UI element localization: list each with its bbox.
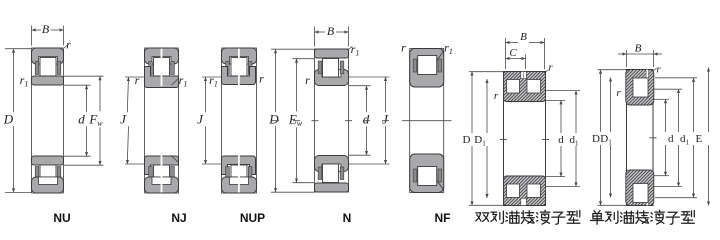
svg-text:d: d — [363, 111, 370, 126]
dimension D line (FC2) — [471, 72, 473, 134]
bearing NU cage (bottom) — [35, 167, 61, 180]
bearing FC1 rib slit (bottom) — [646, 197, 648, 206]
bearing N roller (top) — [323, 59, 339, 78]
bearing NUP center split line (bottom) — [238, 155, 240, 193]
label r1 (N top right) — [349, 46, 352, 49]
svg-text:d: d — [668, 133, 674, 145]
bearing NUP outer ring (bottom, two flanges) — [222, 177, 257, 193]
bearing N outer ring (top, plain) — [315, 49, 349, 58]
svg-text:NF: NF — [435, 211, 451, 225]
label r (FC1 top right) — [654, 68, 657, 70]
bearing NUP inner ring (top, flange + loose rib) — [222, 67, 256, 85]
caption: double-row full complement roller type (Chinese) — [476, 210, 580, 224]
bearing N body outline — [315, 49, 349, 192]
bearing NU cage (top) — [35, 62, 61, 75]
dimension B line (FC1, outside arrows) — [618, 53, 627, 55]
bearing FC2 roller row 2 (top) — [527, 80, 541, 94]
bearing NJ inner ring (bottom, one flange left) — [145, 156, 179, 175]
dimension E extension lines (FC1) — [655, 77, 697, 79]
bearing FC2 rib notch (bottom) — [521, 198, 527, 205]
dimension Ew extension lines (N) — [293, 58, 315, 60]
bearing NU outer ring (bottom, two flanges) — [32, 177, 64, 193]
bearing NU body outline — [32, 48, 64, 193]
bearing NUP roller (bottom) — [231, 165, 247, 184]
svg-text:r: r — [401, 41, 406, 55]
dimension Ew line (N) — [296, 59, 298, 112]
bearing NJ roller (bottom) — [154, 165, 170, 184]
bearing NF cage (top) — [413, 59, 441, 72]
bearing NJ center split line (top) — [161, 49, 163, 87]
bearing FC2 roller row 1 (bottom) — [507, 184, 520, 198]
dimension E line (FC1) — [693, 78, 695, 132]
bearing NJ body outline — [145, 48, 179, 193]
bearing FC2 cross-section (bottom, hatched) — [504, 176, 546, 206]
dimension B extension lines (NU) — [31, 26, 33, 46]
bearing NUP cage (bottom) — [226, 167, 252, 180]
svg-text:NUP: NUP — [240, 211, 265, 225]
bearing FC2 rib notch (top) — [521, 72, 527, 79]
dimension B line (NU) — [32, 29, 42, 31]
bearing NF body outline — [410, 49, 444, 193]
label r (NU, outer ring chamfer) — [64, 45, 67, 48]
svg-text:B: B — [42, 22, 50, 36]
dimension B line (N) — [315, 31, 326, 33]
bearing NJ cage (top) — [149, 62, 175, 75]
bearing NUP cage (top) — [226, 62, 252, 75]
bearing NUP roller (top) — [231, 58, 247, 77]
dimension D line (NU) — [13, 49, 15, 113]
bearing FC1 cylinder body — [627, 70, 654, 206]
dimension D extension lines (N) — [271, 48, 315, 50]
bearing NF roller (bottom) — [418, 167, 437, 186]
svg-text:N: N — [343, 211, 352, 225]
bearing NUP inner ring (bottom, flange + loose rib) — [222, 156, 256, 175]
bearing NJ outer ring (top, two flanges) — [145, 48, 179, 64]
dimension d1 line (FC2) — [575, 91, 577, 134]
bearing FC1 roller (bottom) — [633, 184, 648, 203]
svg-text:E: E — [696, 133, 703, 145]
bearing NU inner ring (top, plain) — [32, 76, 64, 85]
bearing NJ flange separation (bottom right) — [172, 156, 179, 163]
svg-text:B: B — [635, 43, 642, 55]
dimension d line (FC2) — [560, 100, 562, 133]
svg-text:r: r — [656, 64, 661, 76]
svg-text:B: B — [520, 31, 527, 43]
dimension J line (NUP) — [205, 77, 207, 112]
svg-text:d: d — [78, 111, 85, 126]
dimension D line (N) — [275, 49, 277, 112]
dimension D1 line (FC1) — [610, 78, 612, 133]
svg-text:D: D — [592, 133, 600, 145]
bearing NU roller (top) — [40, 58, 56, 77]
bearing FC1 rib slit (top) — [646, 70, 648, 79]
svg-text:r: r — [494, 90, 499, 102]
dimension d extension lines (N) — [349, 85, 371, 87]
label r (FC2 top right) — [546, 70, 549, 72]
caption: single-row full complement roller type (Chinese) — [591, 210, 695, 224]
bearing NJ roller (top) — [154, 58, 170, 77]
bearing FC1 cross-section (top, hatched) — [626, 70, 654, 106]
svg-text:r: r — [305, 73, 310, 87]
bearing NUP center split line (top) — [238, 49, 240, 87]
bearing NF cage (bottom) — [413, 169, 441, 182]
bearing N roller (bottom) — [323, 164, 339, 183]
bearing NUP body outline — [222, 48, 257, 193]
dimension d extension lines (FC2) — [546, 99, 566, 101]
dimension D1 line (FC2) — [486, 79, 488, 133]
dimension D line (FC1) — [600, 70, 602, 132]
bearing NU outer ring (top, two flanges) — [32, 48, 64, 64]
centerline ticks (FC2) — [500, 139, 507, 141]
svg-text:d: d — [558, 134, 564, 146]
dimension Fw line (NU) — [99, 76, 101, 111]
svg-text:D: D — [3, 111, 14, 126]
svg-text:NU: NU — [53, 211, 70, 225]
bearing FC2 roller row 1 (top) — [507, 80, 520, 94]
centerline tick (FC1) — [650, 137, 657, 139]
centerline ticks (N) — [272, 120, 279, 122]
bearing FC2 roller row 2 (bottom) — [527, 184, 541, 198]
svg-text:C: C — [509, 47, 517, 59]
svg-text:r: r — [66, 38, 71, 52]
dimension J extension lines (NJ) — [125, 76, 145, 78]
svg-text:r: r — [548, 62, 553, 74]
bearing FC2 cylinder body — [504, 72, 546, 206]
bearing N outer ring (bottom, plain) — [315, 183, 349, 192]
dimension Fw extension lines (NU) — [64, 75, 104, 77]
dimension d1 extension lines (FC1) — [654, 88, 683, 90]
bearing NF flange separation (top right) — [437, 51, 444, 61]
bearing NJ inner ring (top, one flange left) — [145, 67, 179, 88]
bearing NJ cage (bottom) — [149, 167, 175, 180]
dimension d extension lines (NU) — [64, 84, 91, 86]
bearing NF ring block (bottom) — [410, 154, 444, 193]
svg-text:D: D — [463, 134, 471, 146]
bearing N cage (top) — [318, 61, 344, 74]
dimension d1 line (FC1) — [678, 89, 680, 132]
bearing FC2 cross-section (top, hatched) — [504, 72, 546, 102]
svg-text:r: r — [135, 73, 140, 87]
dimension B extension lines (N) — [314, 27, 316, 47]
bearing NJ center split line (bottom) — [161, 155, 163, 193]
dimension D extension lines (FC1) — [598, 69, 627, 71]
dimension d1 extension lines (FC2) — [546, 90, 581, 92]
bearing NF flange separation (bottom right) — [437, 180, 444, 190]
dimension d line (NU) — [86, 85, 88, 112]
bearing NUP outer ring (top, two flanges) — [222, 48, 257, 64]
dimension outer line (FC1 right) — [708, 68, 710, 133]
dimension d line (N) — [366, 86, 368, 113]
svg-text:r: r — [259, 72, 264, 86]
axis centerline (NF) — [402, 120, 452, 122]
svg-text:r: r — [616, 87, 621, 99]
bearing N inner ring (bottom, two flanges) — [315, 156, 349, 172]
dimension B extension lines (FC1) — [626, 50, 628, 67]
dimension B extension lines (FC2) — [505, 38, 507, 69]
dimension d extension lines (FC1) — [654, 98, 670, 100]
dimension J extension lines (N) — [349, 76, 390, 78]
dimension J line (NJ) — [127, 77, 128, 112]
bearing FC1 cross-section (bottom, hatched) — [626, 170, 654, 206]
dimension d line (FC1) — [665, 99, 667, 132]
bearing NU inner ring (bottom, plain) — [32, 156, 64, 165]
svg-text:NJ: NJ — [171, 211, 186, 225]
bearing NF roller (top) — [418, 56, 437, 75]
dimension J line (N) — [385, 77, 387, 112]
bearing NF ring block (top) — [410, 49, 444, 88]
bearing N inner ring (top, two flanges) — [315, 70, 349, 86]
dimension B line (FC2) — [506, 42, 519, 44]
svg-text:D: D — [268, 111, 279, 126]
bearing N cage (bottom) — [318, 167, 344, 180]
bearing NU roller (bottom) — [40, 165, 56, 184]
dimension D extension lines (FC2) — [469, 71, 504, 73]
bearing FC1 roller (top) — [633, 78, 648, 97]
dimension J extension lines (NUP) — [202, 76, 222, 78]
bearing NJ flange separation (top right) — [172, 79, 179, 86]
svg-text:B: B — [327, 24, 335, 38]
bearing NJ outer ring (bottom, two flanges) — [145, 177, 179, 193]
dimension D extension lines (NU) — [5, 48, 32, 50]
dimension C line (FC2) — [506, 58, 526, 60]
dimension C extension line (FC2) — [525, 55, 527, 70]
